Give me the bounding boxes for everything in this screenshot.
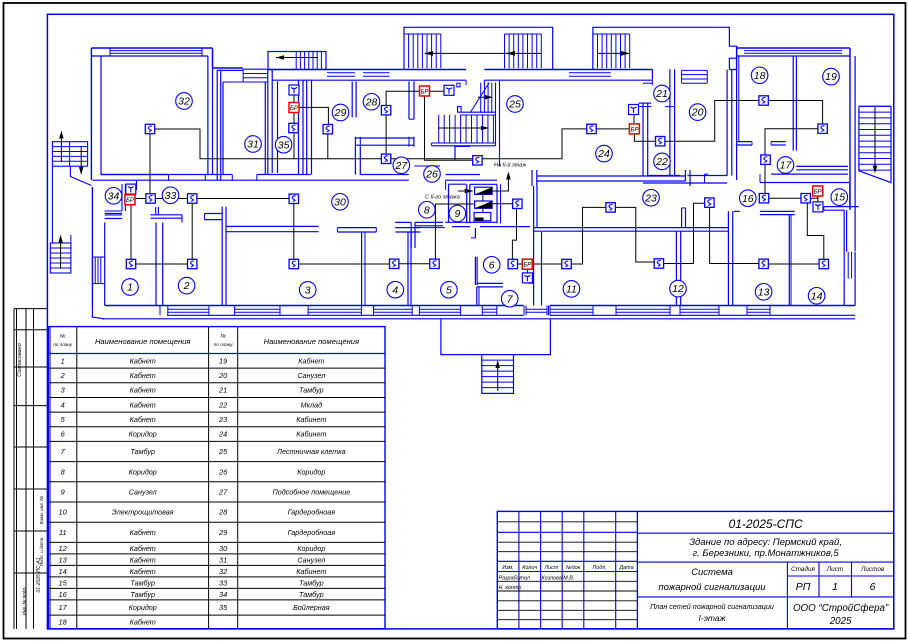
margin label Согласовано (17, 343, 23, 377)
exterior wall right block top + window W18-19 (737, 48, 856, 251)
svg-text:Наименование помещения: Наименование помещения (95, 337, 191, 346)
room label circle 33 (162, 187, 179, 204)
control panel unit U3 (474, 208, 491, 221)
svg-text:Изм.: Изм. (502, 565, 514, 571)
svg-text:25: 25 (508, 99, 521, 111)
smoke detector S4 (390, 259, 399, 268)
svg-text:28: 28 (365, 96, 378, 108)
svg-text:Гардеробноая: Гардеробноая (288, 528, 336, 537)
svg-text:20: 20 (218, 371, 228, 380)
svg-text:ООО “СтройСфера”: ООО “СтройСфера” (793, 603, 889, 614)
wire S32 riser (149, 129, 151, 199)
svg-text:Подп.: Подп. (593, 565, 607, 571)
room label circle 3 (299, 282, 316, 299)
svg-text:01-2025-ПС-А1: 01-2025-ПС-А1 (36, 557, 42, 592)
room label circle 1 (122, 279, 139, 296)
room label circle 19 (823, 68, 840, 85)
exterior stair porch A (x268) (268, 52, 326, 70)
smoke detector S23b (705, 198, 714, 207)
svg-text:19: 19 (219, 356, 227, 365)
wall room12-room13 (728, 211, 732, 305)
svg-text:Кабнет: Кабнет (130, 528, 156, 537)
svg-text:Коридор: Коридор (129, 603, 157, 612)
smoke detector S32 (145, 124, 154, 133)
wire S2 to S1 (131, 263, 192, 265)
room label circle 27 (393, 157, 410, 174)
wire T24 link (633, 111, 635, 123)
smoke detector S6 (508, 259, 517, 268)
smoke detector S28 (381, 106, 390, 115)
svg-text:Кабнет: Кабнет (130, 555, 156, 564)
wall room28-stair25 (409, 81, 414, 119)
wire S19 to S17 to S16 (765, 129, 823, 199)
svg-text:Здание по адресу: Пермский кра: Здание по адресу: Пермский край, (689, 537, 842, 548)
smoke detector S13 (759, 259, 768, 268)
smoke detector S10 (513, 199, 522, 208)
room label circle 17 (777, 157, 794, 174)
wall room29-room28 (352, 82, 356, 118)
svg-text:28: 28 (218, 508, 228, 517)
left margin stamp boxes (14, 309, 47, 629)
svg-text:26: 26 (425, 169, 438, 181)
smoke detector S24 (587, 124, 596, 133)
svg-text:№: № (220, 334, 226, 340)
svg-text:Тамбур: Тамбур (130, 578, 155, 587)
svg-text:Тамбур: Тамбур (299, 386, 324, 395)
sounder T24 (629, 105, 639, 115)
svg-text:22: 22 (655, 156, 668, 168)
room 17 walls (705, 174, 850, 182)
svg-text:30: 30 (334, 196, 346, 208)
svg-text:Кабнет: Кабнет (130, 567, 156, 576)
wire S30a down to S2 (191, 199, 193, 265)
room 20 walls + interior window (682, 70, 732, 176)
sounder T15 (813, 202, 823, 212)
svg-text:Козлова М.В.: Козлова М.В. (542, 576, 575, 582)
svg-text:На II-й этаж: На II-й этаж (494, 162, 526, 169)
wire S5 to S4 (394, 263, 435, 265)
room 35 walls (272, 70, 311, 175)
wire S14 to S13 (764, 263, 824, 265)
room label circle 26 (424, 166, 441, 183)
rooms 21-22 walls (643, 69, 675, 175)
room label circle 24 (596, 145, 613, 162)
svg-text:13: 13 (59, 555, 68, 564)
wire S11 to BR6 to S6 (513, 263, 567, 265)
margin label Инв. № подл. (22, 587, 27, 616)
manual call point BR24 (629, 124, 639, 134)
svg-text:Коридор: Коридор (297, 544, 325, 553)
exterior wall central band + windows (268, 70, 737, 86)
wire device to S5 riser (435, 204, 473, 264)
room label circle 30 (332, 194, 349, 211)
smoke detector S5 (430, 259, 439, 268)
smoke detector S18 (759, 96, 768, 105)
svg-text:2: 2 (60, 371, 65, 380)
control panel unit U1 (475, 187, 493, 194)
svg-text:34: 34 (219, 590, 227, 599)
svg-text:8: 8 (424, 204, 430, 216)
svg-text:33: 33 (165, 190, 177, 202)
svg-text:15: 15 (833, 192, 845, 204)
svg-text:24: 24 (597, 148, 610, 160)
svg-text:21: 21 (655, 88, 668, 100)
room label circle 9 (449, 205, 466, 222)
svg-text:6: 6 (870, 581, 876, 593)
svg-text:10: 10 (59, 508, 68, 517)
wire S12 to S23a (611, 207, 659, 262)
svg-text:Лист: Лист (543, 565, 558, 571)
wire S6 up to S10 (512, 204, 516, 264)
svg-text:БР: БР (630, 127, 638, 133)
svg-text:30: 30 (219, 544, 228, 553)
svg-text:Колич: Колич (522, 565, 537, 571)
wire S15b down to S14 (807, 200, 824, 264)
room 31 walls + window W31 (223, 69, 268, 174)
wire corridor S30b to S30a to S33 to BR34 (131, 198, 294, 200)
manual call point BR35 (289, 103, 299, 113)
wire S24 to BR24 (592, 128, 635, 130)
wall room4-room5 (408, 232, 411, 306)
svg-text:по плану: по плану (53, 342, 73, 347)
room 26 walls (414, 146, 470, 166)
svg-text:1: 1 (127, 282, 133, 294)
smoke detector S2 (188, 259, 197, 268)
wire main loop west run (150, 129, 592, 159)
wire S3 riser to S30b (293, 199, 295, 264)
wire S16 to S15b to BR15 (764, 191, 818, 198)
room label circle 11 (563, 281, 580, 298)
room schedule table (49, 327, 386, 629)
exterior stair right side (859, 106, 891, 182)
svg-text:Листов: Листов (860, 566, 885, 573)
room label circle 4 (387, 281, 404, 298)
room label circle 20 (689, 104, 706, 121)
svg-text:БР: БР (523, 263, 531, 269)
rooms 18-19 walls (736, 56, 848, 180)
label S II etazha (425, 195, 460, 201)
svg-text:5: 5 (446, 284, 452, 296)
smoke detector S26 (473, 156, 482, 165)
manual call point BR6 (522, 259, 532, 269)
svg-text:Кабнет: Кабнет (130, 371, 156, 380)
wire device1 riser up (492, 178, 508, 191)
svg-text:Инв. № подл.: Инв. № подл. (22, 587, 27, 616)
svg-text:11: 11 (59, 528, 67, 537)
exterior stair left upper (52, 131, 91, 244)
svg-text:17: 17 (59, 603, 68, 612)
svg-text:1: 1 (832, 581, 838, 593)
svg-text:Электрощитовая: Электрощитовая (112, 508, 174, 517)
svg-text:Кабинет: Кабинет (296, 430, 326, 439)
svg-text:План сетей пожарной сигнализац: План сетей пожарной сигнализации (650, 602, 774, 611)
svg-text:27: 27 (218, 488, 228, 497)
svg-text:21: 21 (218, 386, 227, 395)
svg-text:Тамбур: Тамбур (299, 578, 324, 587)
room label circle 23 (643, 190, 660, 207)
manual call point BR34 (125, 195, 135, 205)
svg-text:26: 26 (218, 467, 228, 476)
smoke detector S16 (759, 194, 768, 203)
svg-text:Взам. инв. №: Взам. инв. № (39, 496, 44, 524)
svg-text:Система: Система (691, 567, 733, 578)
room label circle 2 (178, 277, 195, 294)
svg-text:Кабнет: Кабнет (130, 415, 156, 424)
svg-text:9: 9 (61, 488, 65, 497)
smoke detector S23a (606, 203, 615, 212)
svg-text:32: 32 (219, 567, 227, 576)
smoke detector S17 (761, 155, 770, 164)
entrance porch + stair bottom (441, 319, 551, 393)
svg-text:35: 35 (278, 139, 290, 151)
room label circle 29 (332, 104, 349, 121)
wire T34 link (130, 189, 132, 195)
wire T15 link (817, 191, 819, 205)
svg-text:23: 23 (218, 415, 228, 424)
room label circle 12 (670, 280, 687, 297)
svg-text:Кабинет: Кабинет (296, 567, 326, 576)
wire BR25 to T25 (425, 90, 450, 92)
wire BR25 down to S26 (425, 91, 478, 160)
svg-text:Кабнет: Кабнет (130, 544, 156, 553)
room label circle 18 (751, 67, 768, 84)
wire S18 to S19 (764, 101, 823, 129)
svg-text:13: 13 (758, 286, 770, 298)
svg-text:Наименование помещения: Наименование помещения (264, 337, 360, 346)
svg-text:25: 25 (218, 447, 228, 456)
svg-text:Лестничная клетка: Лестничная клетка (276, 447, 346, 456)
rooms 15-16 walls (734, 183, 859, 252)
svg-text:№док: №док (566, 565, 581, 571)
smoke detector S3 (289, 259, 298, 268)
svg-text:18: 18 (754, 70, 766, 82)
svg-text:Гардеробноая: Гардеробноая (288, 508, 336, 517)
room label circle 32 (176, 93, 193, 110)
wire S27 to S28 (385, 110, 387, 158)
svg-text:С II-го этажа: С II-го этажа (425, 195, 460, 201)
svg-text:Тамбур: Тамбур (130, 447, 155, 456)
wire S10 to device (492, 203, 517, 205)
sounder T34 (126, 184, 136, 194)
svg-text:11: 11 (566, 284, 577, 296)
room label circle 22 (654, 153, 671, 170)
svg-text:БР: БР (814, 189, 822, 195)
svg-text:31: 31 (219, 555, 227, 564)
svg-text:I-этаж: I-этаж (699, 613, 727, 623)
sounder T25 (444, 85, 454, 95)
room 32 walls (101, 48, 213, 175)
svg-text:32: 32 (178, 96, 190, 108)
svg-text:Санузел: Санузел (129, 488, 157, 497)
svg-text:19: 19 (825, 71, 837, 83)
svg-text:27: 27 (394, 160, 408, 172)
manual call point BR15 (813, 186, 823, 196)
room label circle 35 (275, 136, 292, 153)
svg-text:Коридор: Коридор (129, 430, 157, 439)
room label circle 16 (740, 190, 757, 207)
svg-text:Коридор: Коридор (297, 467, 325, 476)
svg-text:24: 24 (218, 430, 227, 439)
svg-text:Кабнет: Кабнет (298, 356, 324, 365)
wire from floor2 into device1 (458, 189, 474, 194)
svg-text:12: 12 (672, 283, 684, 295)
wire BR35 to S29 (299, 107, 328, 124)
tambour 33-34 walls (105, 180, 182, 223)
svg-text:4: 4 (61, 400, 65, 409)
room label circle 15 (831, 189, 848, 206)
room label circle 8 (419, 202, 436, 219)
svg-text:22: 22 (218, 400, 227, 409)
svg-text:4: 4 (392, 284, 398, 296)
svg-text:2: 2 (183, 280, 190, 292)
room label circle 5 (441, 281, 458, 298)
svg-text:пожарной сигнализации: пожарной сигнализации (658, 582, 766, 593)
smoke detector S35 (289, 123, 298, 132)
wall room1-room2 (156, 223, 163, 306)
smoke detector S15b (801, 194, 810, 203)
svg-text:Лист: Лист (826, 566, 844, 573)
margin label 01-2025-ПС-А1 (36, 557, 42, 592)
svg-text:Мклад: Мклад (301, 400, 322, 409)
wire BR24 down to S22 run (634, 101, 763, 142)
svg-text:3: 3 (305, 285, 311, 297)
room label circle 21 (654, 85, 671, 102)
wire S28 riser to BR25 (386, 91, 424, 110)
svg-text:20: 20 (691, 107, 704, 119)
margin label Взам. инв. № (39, 496, 44, 524)
svg-text:Коридор: Коридор (129, 467, 157, 476)
wall room11-room12 (676, 208, 685, 306)
svg-text:34: 34 (108, 190, 120, 202)
svg-text:БР: БР (421, 89, 429, 95)
svg-text:Кабнет: Кабнет (130, 400, 156, 409)
wall step x212 (213, 48, 243, 180)
room 27 walls (355, 137, 414, 175)
room label circle 6 (483, 257, 500, 274)
svg-text:29: 29 (218, 528, 227, 537)
exterior bottom wall + window band (102, 306, 855, 319)
svg-text:6: 6 (489, 259, 495, 271)
wall room13-room14 (789, 215, 791, 306)
svg-text:БР: БР (126, 198, 134, 204)
svg-text:18: 18 (59, 618, 68, 627)
svg-text:17: 17 (780, 160, 793, 172)
exterior right wall + window W14 (844, 180, 855, 306)
svg-text:Подсобное помещение: Подсобное помещение (272, 488, 350, 497)
room label circle 25 (507, 96, 524, 113)
room label circle 7 (501, 290, 518, 307)
exterior stair block B (x404-552) (404, 27, 553, 69)
svg-text:Согласовано: Согласовано (17, 343, 23, 377)
wall corr6-room11 (534, 186, 542, 306)
exterior wall left block top + window W32 (91, 48, 212, 180)
room label circle 34 (105, 188, 122, 205)
svg-text:РП: РП (796, 581, 811, 593)
svg-text:Дата: Дата (618, 565, 633, 571)
label Na II etazh (494, 162, 526, 169)
arrow to floor2 (506, 172, 511, 180)
wire S1 up to BR34 (130, 200, 132, 264)
corridor 23 walls (532, 170, 729, 231)
tambour 7 walls (477, 283, 534, 305)
manual call point BR25 (420, 86, 430, 96)
smoke detector S14 (819, 259, 828, 268)
room label circle 14 (808, 288, 825, 305)
margin label Подп. и дата (39, 537, 44, 566)
smoke detector S11 (562, 259, 571, 268)
wall room5-corr6 (471, 228, 477, 285)
svg-text:Стадия: Стадия (791, 565, 816, 573)
svg-text:16: 16 (742, 193, 754, 205)
svg-text:Н. контр: Н. контр (499, 585, 522, 591)
smoke detector S33 (146, 194, 155, 203)
svg-text:БР: БР (290, 106, 298, 112)
wire S23b to S12 (659, 203, 710, 263)
exterior stair block C (x593-729) (593, 27, 737, 79)
smoke detector S22 (656, 137, 665, 146)
svg-text:Кабнет: Кабнет (130, 356, 156, 365)
svg-text:35: 35 (219, 603, 228, 612)
svg-text:31: 31 (247, 139, 259, 151)
svg-text:16: 16 (59, 590, 68, 599)
svg-text:Санузел: Санузел (297, 555, 325, 564)
smoke detector S30a (188, 194, 197, 203)
svg-text:23: 23 (644, 192, 657, 204)
lower rooms 1-3 top wall (105, 214, 319, 232)
wire S29 riser (327, 129, 329, 159)
svg-text:Санузел: Санузел (297, 371, 325, 380)
svg-text:1: 1 (61, 356, 65, 365)
wall room2-room3 (222, 207, 226, 306)
lower rooms 4-5 top wall (337, 228, 445, 232)
svg-text:33: 33 (219, 578, 228, 587)
svg-text:Тамбур: Тамбур (130, 590, 155, 599)
smoke detector S19 (818, 124, 827, 133)
svg-text:2025: 2025 (829, 616, 852, 627)
wire S13 to S23b (710, 203, 764, 264)
corridor 30 top wall (92, 175, 497, 181)
smoke detector S1 (126, 259, 135, 268)
wire S23a to S11 (567, 207, 611, 264)
svg-text:Кабнет: Кабнет (130, 386, 156, 395)
wire T35 chain (293, 90, 295, 159)
svg-text:Кабинет: Кабинет (296, 415, 326, 424)
svg-text:14: 14 (59, 567, 67, 576)
control panel unit U2 (475, 194, 493, 208)
smoke detector S12 (654, 259, 663, 268)
sounder T35 (289, 85, 299, 95)
svg-text:г. Березники, пр.Монатжников,5: г. Березники, пр.Монатжников,5 (692, 548, 839, 559)
smoke detector S27 (381, 154, 390, 163)
room label circle 13 (755, 284, 772, 301)
svg-text:9: 9 (454, 208, 460, 220)
svg-text:29: 29 (334, 107, 347, 119)
smoke detector S29 (323, 125, 332, 134)
svg-text:по плану: по плану (214, 342, 234, 347)
svg-text:№: № (60, 334, 66, 340)
svg-text:14: 14 (811, 290, 823, 302)
wire T6 link (526, 264, 528, 276)
title block (497, 511, 894, 629)
wall room3-room4 (362, 232, 365, 306)
svg-text:Кабнет: Кабнет (130, 618, 156, 627)
stairwell room 25 (432, 80, 500, 167)
sounder T6 (522, 273, 532, 283)
room 24 walls (638, 103, 651, 175)
smoke detector S30b (289, 194, 298, 203)
svg-text:Бойлерная: Бойлерная (293, 603, 330, 612)
svg-text:Тамбур: Тамбур (299, 590, 324, 599)
